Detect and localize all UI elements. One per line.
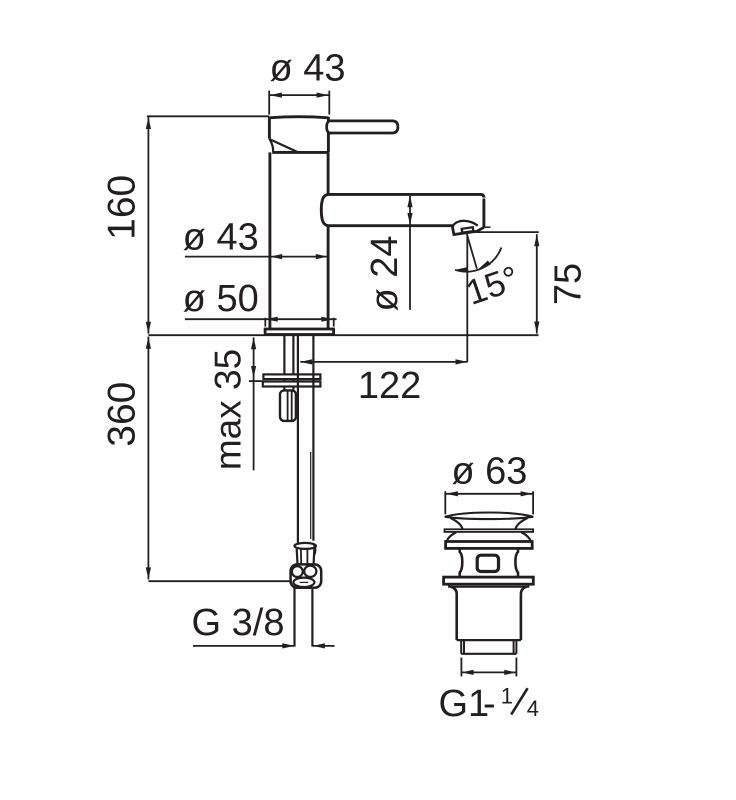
- dim63 line: [446, 493, 533, 495]
- mounting nut: [280, 390, 296, 421]
- angle 15 arrow left: [456, 267, 468, 272]
- handle lever: [327, 121, 398, 133]
- angle 15 arrow right: [478, 260, 491, 271]
- dimG38 line right: [313, 645, 335, 647]
- drain thread left: [461, 640, 464, 654]
- dim122 line: [300, 361, 467, 363]
- dim43top line: [270, 94, 329, 96]
- faucet body left edge: [268, 152, 271, 329]
- dim360 arrow down: [146, 567, 151, 579]
- supply nut face right: [304, 566, 316, 577]
- dim50 arrow right: [321, 317, 333, 322]
- drain washer band: [445, 529, 534, 532]
- svg-text:160: 160: [101, 175, 144, 240]
- svg-text:360: 360: [101, 382, 144, 447]
- dim360 bottom ref line: [148, 580, 290, 582]
- aerator body: [452, 227, 484, 235]
- hose bend hook: [313, 543, 316, 555]
- svg-text:4: 4: [527, 696, 539, 721]
- drain neck lower right: [521, 532, 531, 541]
- dim63 arrow right: [521, 491, 533, 496]
- g38 pipe right: [311, 588, 313, 647]
- dim50 arrow left: [266, 317, 278, 322]
- dim63 ext right: [532, 491, 534, 514]
- dim50 ext left: [264, 318, 266, 327]
- svg-text:G 3/8: G 3/8: [192, 602, 285, 644]
- drain thread bottom: [461, 653, 516, 655]
- drain cap lens: [445, 513, 533, 520]
- drain barrel bottom: [457, 639, 521, 641]
- faucet body right edge upper: [327, 152, 330, 194]
- svg-text:75: 75: [548, 263, 590, 305]
- svg-text:ø 24: ø 24: [364, 235, 406, 311]
- drain overflow body right: [515, 549, 518, 578]
- drain overflow hole: [477, 555, 498, 571]
- dim75 arrow up: [534, 234, 539, 246]
- dim max35 line upper: [253, 337, 255, 378]
- drain barrel left: [451, 587, 457, 640]
- faucet cap bottom: [272, 151, 328, 154]
- dim360 arrow up: [146, 337, 151, 349]
- dimG38 line left: [193, 645, 294, 647]
- faucet cap right edge: [327, 117, 330, 153]
- spout tip vertical ref line: [466, 234, 468, 362]
- dim43top arrow right: [317, 93, 329, 98]
- dim75 arrow down: [534, 322, 539, 334]
- aerator dome: [452, 221, 477, 227]
- countertop line: [148, 334, 538, 336]
- spout top edge: [327, 194, 484, 197]
- dim360 line: [147, 337, 149, 580]
- crimp sleeve: [297, 549, 315, 564]
- drain overflow body left: [460, 549, 463, 578]
- svg-text:122: 122: [358, 365, 421, 407]
- spout bottom edge: [327, 224, 453, 227]
- supply hose inner line: [310, 452, 312, 539]
- dim160 arrow up: [146, 117, 151, 129]
- label G114 fraction slash: [511, 688, 527, 714]
- drain flange 2: [444, 577, 534, 584]
- dimG38 arrow right: [313, 643, 325, 648]
- svg-text:G1-: G1-: [439, 683, 496, 725]
- hose collar: [294, 543, 316, 549]
- base flange: [265, 329, 334, 335]
- washer plate 2: [263, 382, 321, 387]
- spout left cap arc: [321, 195, 328, 226]
- aerator corner stub: [484, 226, 491, 228]
- drain thread right: [514, 640, 517, 654]
- crimp sleeve face lines: [301, 549, 308, 563]
- dim122 arrow left: [300, 359, 312, 364]
- dim75 top ref line: [467, 231, 538, 233]
- dim24 line: [409, 195, 411, 310]
- dim63 arrow left: [446, 491, 458, 496]
- faucet body right edge lower: [327, 226, 330, 330]
- svg-text:ø 43: ø 43: [269, 48, 345, 90]
- faucet cap top: [269, 117, 328, 118]
- dim43mid arrow right: [316, 254, 328, 259]
- dim75 line: [536, 234, 538, 333]
- supply nut bottom dash: [300, 581, 309, 583]
- supply nut bottom face: [293, 578, 314, 587]
- svg-text:15°: 15°: [461, 259, 524, 313]
- supply hose right line: [312, 334, 314, 540]
- washer plate 1: [263, 374, 320, 379]
- svg-text:ø 43: ø 43: [183, 216, 259, 258]
- svg-text:ø 63: ø 63: [451, 451, 527, 493]
- supply nut body: [291, 564, 322, 587]
- angle 15 slant line: [467, 234, 477, 269]
- threaded stud right line: [292, 334, 294, 390]
- svg-text:1: 1: [501, 684, 513, 709]
- dim122 arrow right: [456, 359, 468, 364]
- faucet cap tilt arc: [269, 139, 273, 152]
- supply nut face left: [292, 566, 303, 577]
- drain neck lower left: [447, 532, 457, 541]
- dim43top ext left: [268, 91, 270, 115]
- dimG114 arrow left: [462, 670, 474, 675]
- dim63 ext left: [444, 491, 446, 514]
- aerator outlet rect: [462, 227, 474, 232]
- dim160 top ref line: [147, 115, 269, 117]
- dim24 arrow down: [407, 213, 412, 225]
- drain barrel right: [521, 587, 527, 640]
- dim160 line: [147, 117, 149, 333]
- mounting nut face lines: [288, 391, 292, 421]
- dim max35 ext tick: [249, 380, 263, 382]
- threaded stud left line: [283, 334, 285, 390]
- dim50 line: [185, 318, 337, 320]
- dimG114 ext left: [460, 658, 462, 677]
- supply hose left line: [297, 334, 299, 543]
- dimG38 arrow left: [282, 643, 294, 648]
- dimG114 ext right: [515, 658, 517, 677]
- drain flange 1: [446, 542, 533, 549]
- dim max35 line lower: [253, 378, 255, 470]
- dimG114 arrow right: [504, 670, 516, 675]
- faucet cap diagonal: [270, 139, 298, 152]
- dim24 arrow up: [407, 195, 412, 207]
- spout right edge: [482, 199, 485, 228]
- dim max35 arrow up: [251, 337, 256, 349]
- g38 pipe left: [293, 588, 295, 647]
- drain neck upper left: [451, 518, 463, 529]
- dim max35 arrow down: [251, 366, 256, 378]
- svg-text:ø 50: ø 50: [183, 278, 259, 320]
- dim43top arrow left: [270, 93, 282, 98]
- angle 15 arc: [455, 248, 501, 272]
- dim43mid line: [185, 256, 328, 258]
- drain lip: [449, 584, 528, 587]
- dim43mid arrow left: [270, 254, 282, 259]
- dimG114 line: [462, 671, 516, 673]
- drain neck upper right: [515, 518, 527, 529]
- faucet cap left edge: [268, 117, 271, 139]
- svg-text:max 35: max 35: [208, 349, 249, 470]
- dim50 ext right: [333, 318, 335, 327]
- dim43top ext right: [328, 91, 330, 115]
- dim160 arrow down: [146, 322, 151, 334]
